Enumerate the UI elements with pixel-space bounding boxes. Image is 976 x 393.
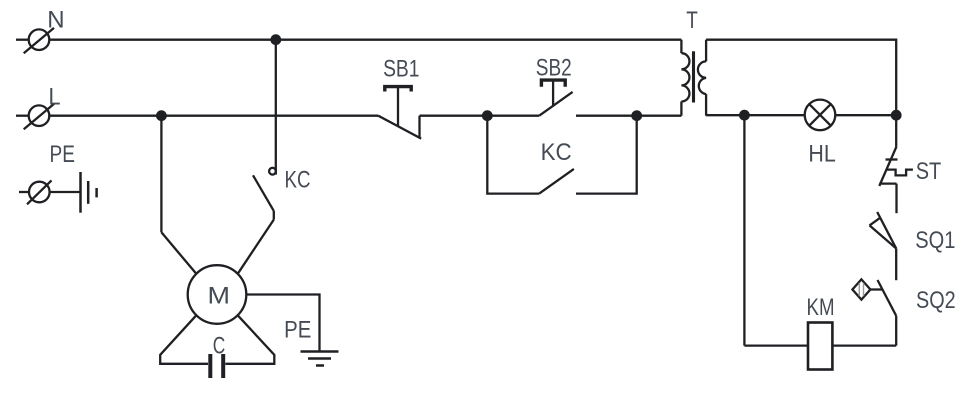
svg-text:KM: KM xyxy=(807,294,835,321)
wire motor to capacitor (left leg) xyxy=(160,315,208,364)
svg-text:N: N xyxy=(47,6,64,33)
wire secondary bottom to lamp xyxy=(706,114,805,116)
wire SQ2 to KM coil xyxy=(832,344,896,346)
wire SB1 to SB2 xyxy=(420,115,540,117)
wire PE terminal to earth xyxy=(50,191,81,193)
node on N line xyxy=(270,34,281,45)
node right rail xyxy=(891,110,902,121)
wire KM coil to node xyxy=(744,115,808,345)
svg-text:ST: ST xyxy=(916,158,942,185)
svg-text:T: T xyxy=(686,7,698,34)
wire capacitor to motor (right leg) xyxy=(225,315,274,364)
earth symbol (sideways) xyxy=(81,172,97,213)
svg-text:SQ1: SQ1 xyxy=(915,227,955,254)
svg-text:PE: PE xyxy=(50,141,75,168)
svg-text:SQ2: SQ2 xyxy=(916,287,956,314)
wire L node down to motor xyxy=(161,116,196,274)
svg-text:SB1: SB1 xyxy=(383,56,419,83)
terminal PE xyxy=(19,180,52,204)
contact KC (parallel, NO) xyxy=(487,116,636,194)
wire lamp to right rail xyxy=(835,114,896,116)
terminal N xyxy=(16,28,54,53)
coil KM xyxy=(808,323,832,370)
pushbutton SB1 (NC) xyxy=(378,87,421,139)
wire motor to PE ground xyxy=(246,295,319,352)
svg-text:KC: KC xyxy=(285,167,311,194)
wire secondary top xyxy=(706,40,896,116)
terminal L xyxy=(16,104,54,129)
wire N node down to KC contact xyxy=(275,40,277,175)
svg-text:SB2: SB2 xyxy=(536,55,572,82)
capacitor C xyxy=(210,354,223,378)
svg-text:KC: KC xyxy=(541,139,572,166)
lamp HL xyxy=(805,100,836,131)
svg-text:HL: HL xyxy=(808,140,835,167)
node KM branch xyxy=(739,110,750,121)
transformer T primary winding xyxy=(681,40,689,116)
ground PE (motor) xyxy=(301,352,339,366)
thermal switch ST (NC) xyxy=(879,115,913,213)
transformer T core xyxy=(692,51,695,102)
wire L line left xyxy=(49,115,378,117)
svg-text:C: C xyxy=(213,332,226,359)
pushbutton SB2 (NO) xyxy=(539,80,572,116)
motor M1 xyxy=(188,265,247,324)
proximity switch SQ2 xyxy=(852,279,896,345)
limit switch SQ1 xyxy=(870,212,897,280)
transformer T secondary winding xyxy=(698,40,706,116)
wire N line xyxy=(49,39,681,41)
node on L line xyxy=(156,110,167,121)
node SB2 left xyxy=(482,110,493,121)
svg-text:M: M xyxy=(208,282,231,309)
svg-text:PE: PE xyxy=(284,316,311,343)
node SB2 right xyxy=(631,110,642,121)
svg-text:L: L xyxy=(49,84,61,111)
wire SB2 right xyxy=(576,115,681,117)
contact KC (motor branch, NO with circle terminal) xyxy=(238,168,276,274)
